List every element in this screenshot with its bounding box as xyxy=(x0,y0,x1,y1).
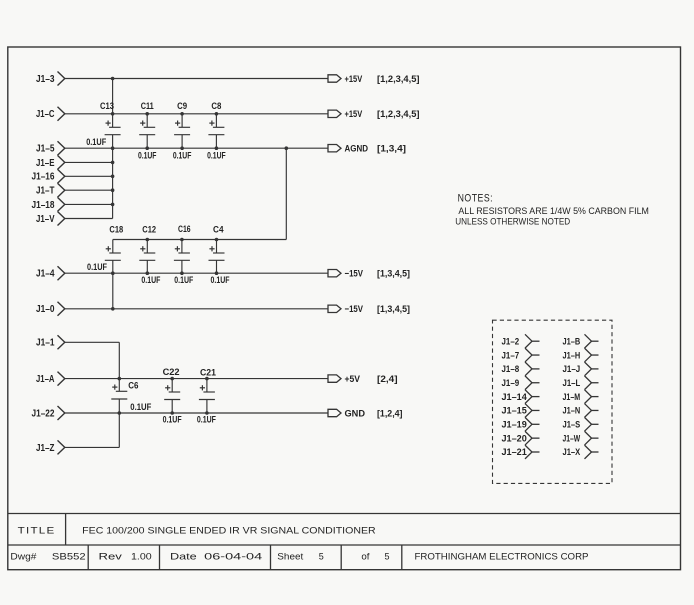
svg-text:5: 5 xyxy=(319,552,324,562)
svg-text:AGND: AGND xyxy=(345,144,369,155)
svg-text:0.1UF: 0.1UF xyxy=(207,150,226,160)
svg-text:TITLE: TITLE xyxy=(18,525,56,535)
svg-text:Rev: Rev xyxy=(99,552,123,562)
svg-text:J1–Z: J1–Z xyxy=(36,443,55,454)
svg-text:0.1UF: 0.1UF xyxy=(174,275,193,285)
svg-text:[1,2,3,4,5]: [1,2,3,4,5] xyxy=(377,109,420,120)
svg-text:FROTHINGHAM ELECTRONICS CORP: FROTHINGHAM ELECTRONICS CORP xyxy=(415,552,589,562)
svg-text:[1,3,4]: [1,3,4] xyxy=(377,144,406,155)
svg-text:0.1UF: 0.1UF xyxy=(173,150,192,160)
svg-text:J1–22: J1–22 xyxy=(32,408,55,419)
svg-text:J1–16: J1–16 xyxy=(32,172,55,183)
svg-text:J1–4: J1–4 xyxy=(36,269,55,280)
svg-text:GND: GND xyxy=(345,408,366,419)
svg-text:Date: Date xyxy=(170,552,197,562)
svg-text:J1–C: J1–C xyxy=(36,109,55,120)
svg-text:J1–X: J1–X xyxy=(563,447,581,457)
svg-text:ALL RESISTORS ARE 1/4W 5% CARB: ALL RESISTORS ARE 1/4W 5% CARBON FILM xyxy=(458,206,649,216)
svg-text:J1–5: J1–5 xyxy=(36,144,55,155)
svg-text:J1–8: J1–8 xyxy=(502,364,520,374)
svg-text:0.1UF: 0.1UF xyxy=(86,137,106,147)
svg-text:C8: C8 xyxy=(211,101,221,112)
svg-text:J1–20: J1–20 xyxy=(502,433,527,443)
svg-text:C11: C11 xyxy=(141,101,155,112)
svg-text:+5V: +5V xyxy=(345,374,361,385)
svg-text:[1,3,4,5]: [1,3,4,5] xyxy=(377,269,410,280)
svg-text:UNLESS OTHERWISE NOTED: UNLESS OTHERWISE NOTED xyxy=(455,216,570,226)
svg-text:[1,2,3,4,5]: [1,2,3,4,5] xyxy=(377,74,420,85)
svg-text:J1–7: J1–7 xyxy=(502,350,520,360)
svg-text:SB552: SB552 xyxy=(52,552,86,562)
svg-text:FEC 100/200 SINGLE ENDED IR VR: FEC 100/200 SINGLE ENDED IR VR SIGNAL CO… xyxy=(82,525,376,535)
svg-text:0.1UF: 0.1UF xyxy=(138,150,157,160)
svg-text:J1–L: J1–L xyxy=(563,378,581,388)
svg-text:J1–1: J1–1 xyxy=(36,338,55,349)
svg-text:[1,2,4]: [1,2,4] xyxy=(377,408,403,419)
svg-text:J1–9: J1–9 xyxy=(502,378,520,388)
svg-text:C21: C21 xyxy=(200,367,217,378)
svg-text:[1,3,4,5]: [1,3,4,5] xyxy=(377,304,410,315)
svg-text:of: of xyxy=(361,552,370,562)
svg-text:J1–21: J1–21 xyxy=(502,447,527,457)
svg-text:J1–3: J1–3 xyxy=(36,74,55,85)
svg-text:J1–W: J1–W xyxy=(563,433,581,443)
svg-text:J1–19: J1–19 xyxy=(502,420,527,430)
svg-text:0.1UF: 0.1UF xyxy=(197,415,216,425)
svg-text:J1–J: J1–J xyxy=(563,364,581,374)
svg-text:J1–B: J1–B xyxy=(563,336,581,346)
svg-text:J1–14: J1–14 xyxy=(502,392,528,402)
svg-text:J1–N: J1–N xyxy=(563,406,581,416)
svg-text:0.1UF: 0.1UF xyxy=(141,275,160,285)
svg-text:J1–M: J1–M xyxy=(563,392,581,402)
svg-text:1.00: 1.00 xyxy=(131,552,152,562)
svg-text:J1–2: J1–2 xyxy=(502,336,520,346)
svg-text:06-04-04: 06-04-04 xyxy=(204,552,262,562)
svg-text:C22: C22 xyxy=(163,367,180,378)
svg-text:C6: C6 xyxy=(128,380,138,391)
svg-text:C16: C16 xyxy=(178,224,191,235)
svg-text:+15V: +15V xyxy=(345,109,363,120)
svg-text:J1–H: J1–H xyxy=(563,350,581,360)
svg-text:C9: C9 xyxy=(177,101,187,112)
svg-text:C13: C13 xyxy=(100,101,114,112)
svg-text:5: 5 xyxy=(385,552,390,562)
svg-text:0.1UF: 0.1UF xyxy=(87,262,107,272)
svg-text:J1–E: J1–E xyxy=(36,158,55,169)
svg-text:C12: C12 xyxy=(142,224,156,235)
svg-text:[2,4]: [2,4] xyxy=(377,374,398,385)
svg-text:J1–V: J1–V xyxy=(36,214,55,225)
svg-text:+15V: +15V xyxy=(345,74,363,85)
svg-text:0.1UF: 0.1UF xyxy=(130,402,151,412)
svg-text:C4: C4 xyxy=(213,224,224,235)
svg-text:Sheet: Sheet xyxy=(277,552,303,562)
svg-text:Dwg#: Dwg# xyxy=(10,552,37,562)
svg-text:J1–S: J1–S xyxy=(563,420,581,430)
svg-text:J1–0: J1–0 xyxy=(36,304,55,315)
svg-text:J1–18: J1–18 xyxy=(32,200,55,211)
svg-text:J1–T: J1–T xyxy=(36,186,55,197)
svg-text:NOTES:: NOTES: xyxy=(458,192,494,204)
svg-text:J1–A: J1–A xyxy=(36,374,55,385)
svg-text:0.1UF: 0.1UF xyxy=(211,275,230,285)
svg-text:−15V: −15V xyxy=(345,269,364,280)
svg-text:−15V: −15V xyxy=(345,304,364,315)
svg-text:J1–15: J1–15 xyxy=(502,406,527,416)
svg-text:C18: C18 xyxy=(109,224,123,235)
svg-text:0.1UF: 0.1UF xyxy=(163,415,182,425)
